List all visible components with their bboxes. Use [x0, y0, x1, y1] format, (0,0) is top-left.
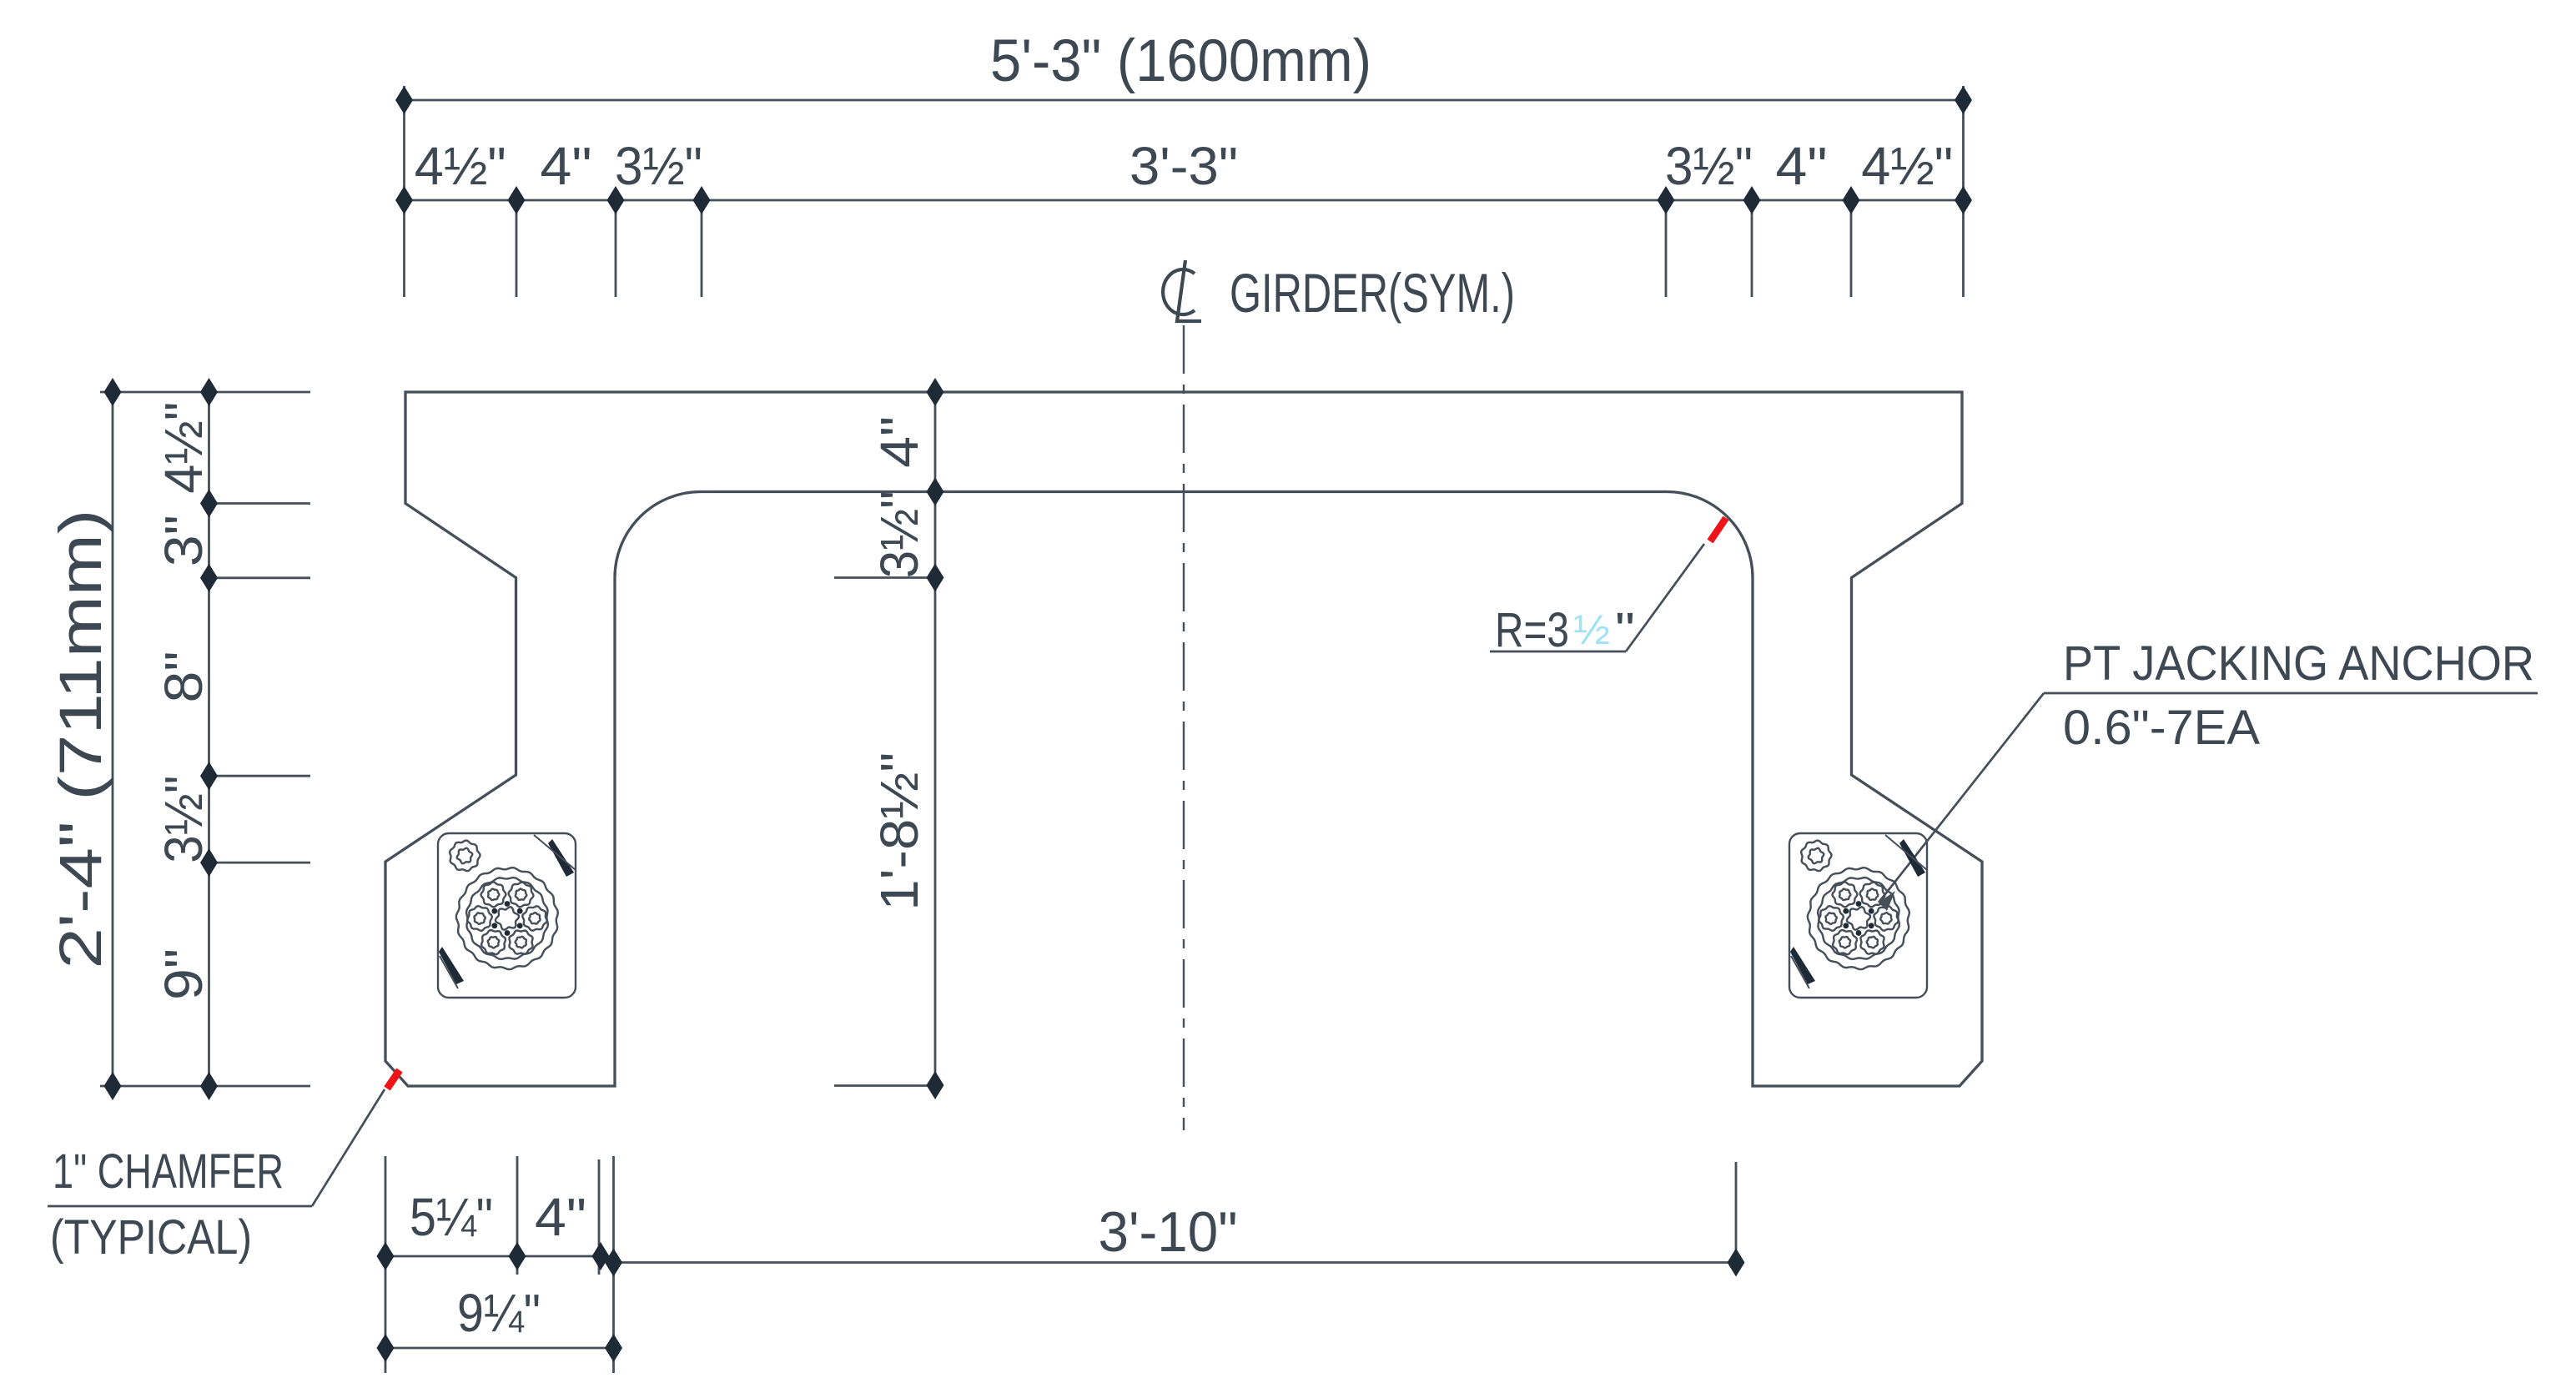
svg-text:3½": 3½" — [1665, 136, 1753, 196]
svg-text:0.6"-7EA: 0.6"-7EA — [2063, 701, 2260, 755]
svg-text:9¼": 9¼" — [457, 1283, 541, 1343]
svg-text:3½": 3½" — [869, 490, 929, 578]
svg-text:1" CHAMFER: 1" CHAMFER — [53, 1144, 284, 1199]
svg-text:½: ½ — [1573, 606, 1610, 653]
svg-text:4½": 4½" — [1861, 136, 1953, 196]
svg-text:4½": 4½" — [153, 402, 214, 494]
svg-text:3½": 3½" — [615, 136, 702, 196]
svg-text:3'-3": 3'-3" — [1130, 136, 1238, 196]
svg-text:PT JACKING ANCHOR: PT JACKING ANCHOR — [2063, 636, 2534, 691]
svg-text:GIRDER(SYM.): GIRDER(SYM.) — [1230, 262, 1515, 324]
svg-text:9": 9" — [153, 948, 214, 1000]
svg-text:5'-3" (1600mm): 5'-3" (1600mm) — [990, 28, 1371, 94]
svg-text:3½": 3½" — [153, 776, 214, 863]
svg-text:1'-8½": 1'-8½" — [869, 752, 929, 911]
svg-text:(TYPICAL): (TYPICAL) — [50, 1210, 252, 1265]
svg-text:3": 3" — [153, 515, 214, 566]
svg-text:R=3: R=3 — [1495, 603, 1569, 657]
svg-text:4": 4" — [541, 136, 592, 196]
svg-text:4": 4" — [1776, 136, 1828, 196]
svg-text:4": 4" — [535, 1187, 586, 1247]
svg-text:5¼": 5¼" — [410, 1187, 493, 1247]
svg-text:4½": 4½" — [415, 136, 506, 196]
svg-text:": " — [1615, 603, 1635, 657]
svg-text:8": 8" — [153, 651, 214, 703]
svg-text:2'-4" (711mm): 2'-4" (711mm) — [48, 510, 114, 969]
svg-text:3'-10": 3'-10" — [1099, 1200, 1238, 1264]
svg-text:4": 4" — [869, 416, 929, 468]
